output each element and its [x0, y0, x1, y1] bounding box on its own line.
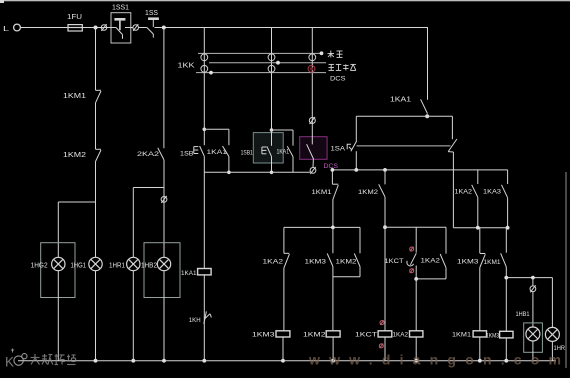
box around lamp 1HB1	[524, 323, 543, 352]
svg-text:1KM3: 1KM3	[457, 259, 479, 266]
contact 2KA2	[158, 148, 164, 160]
wire lamp 1HG1 to bottom bus	[95, 271, 97, 361]
coil 1KM3 (second)	[500, 331, 513, 360]
wire lamp 1HR to bottom bus	[551, 342, 553, 361]
svg-text:K: K	[5, 355, 14, 370]
switch 1SA left pole	[351, 116, 357, 170]
wire 1SA feed rail	[356, 115, 452, 117]
svg-text:1KM2: 1KM2	[303, 332, 326, 339]
svg-text:1HB2: 1HB2	[141, 262, 157, 269]
svg-text:1KA2: 1KA2	[263, 259, 284, 266]
svg-text:1KA1: 1KA1	[207, 149, 228, 156]
coil 1KA2	[410, 331, 423, 361]
grip marker red above 1KCT coil	[380, 320, 384, 325]
svg-text:1HR1: 1HR1	[109, 262, 125, 269]
switch 1SA DCS pole wire and blade	[307, 118, 314, 168]
switch 1SS1 contact	[111, 19, 131, 39]
contact 1KA2 (parallel with 1KCT)	[440, 227, 446, 279]
grip marker red below 1KCT contact	[410, 268, 414, 273]
switch 1KK pole 3 wire	[311, 28, 313, 118]
wire lamp 1HB2 to bottom bus	[163, 271, 165, 361]
svg-text:1SA: 1SA	[331, 146, 346, 153]
contact 1KA1 (parallel with 1SB1)	[287, 130, 293, 172]
terminal circle-slash before 1SS	[133, 24, 139, 31]
contact 1KM1 (middle row)	[332, 170, 338, 228]
svg-text:1SS1: 1SS1	[112, 5, 129, 12]
wire branch to lamp 1HG2	[58, 202, 95, 257]
label yuanzhu-shoudong (1KK position 2, CJK strokes)	[329, 64, 356, 70]
wire lamp rail y277	[504, 276, 552, 280]
svg-text:1KM3: 1KM3	[486, 332, 499, 339]
wire left column from fuse junction down	[95, 28, 97, 91]
switch 1SA right pole	[448, 116, 457, 227]
lamp 1HR1	[127, 257, 140, 270]
junction fuse/left-column	[94, 26, 98, 30]
wire 1SS1 to terminal	[131, 27, 133, 29]
switch 1SA linkage bar	[357, 145, 451, 147]
wire right frame edge	[565, 172, 567, 368]
switch 1KK position line 1	[198, 51, 323, 55]
wire 1KM2 contact down to 1KCT coil	[383, 225, 387, 330]
box around pushbutton 1SB1	[253, 133, 283, 163]
contact 1KM1 (to second coil)	[501, 228, 507, 332]
switch 1KK contact circles row 2	[201, 65, 275, 72]
contact 1KM1 (left column)	[96, 90, 102, 103]
switch 1SS contact	[139, 19, 159, 38]
box around lamp 1HG2	[41, 243, 75, 298]
grip marker red above 1KCT contact	[410, 247, 414, 252]
junction dots on bottom bus	[94, 359, 509, 363]
contact 1KA2 (top right)	[472, 170, 478, 228]
svg-text:1HG2: 1HG2	[31, 262, 48, 269]
svg-text:DCS: DCS	[330, 75, 346, 82]
wire lamp 1HB1 branch	[532, 278, 534, 286]
svg-text:1KM1: 1KM1	[452, 332, 471, 339]
contact 1KA1 (top right)	[421, 99, 428, 113]
switch 1SS1 box	[111, 13, 131, 43]
node L terminal	[14, 24, 21, 31]
wire DCS rail (collects 1SB,1SB1 branches)	[204, 171, 310, 173]
junction 1KM2 drop on bus	[383, 168, 387, 172]
terminal circle-slash above 1SA DCS pole	[309, 117, 315, 124]
top border line	[0, 0, 570, 1]
svg-text:1KM2: 1KM2	[63, 152, 86, 159]
svg-text:1KK: 1KK	[178, 63, 195, 70]
wire coil 1KA1 to bottom bus	[203, 275, 205, 361]
junction 1KA1 to 1SA feed rail	[425, 114, 429, 118]
svg-text:1KM2: 1KM2	[358, 189, 378, 196]
svg-text:1KA2: 1KA2	[455, 188, 473, 195]
wire 2KA2 down to lamp 1HB2	[163, 160, 165, 257]
coil 1KCT	[378, 331, 392, 361]
svg-text:1FU: 1FU	[67, 14, 82, 21]
switch 1KK contact circle row 2 right (red)	[308, 65, 315, 72]
coil 1KA1	[198, 269, 212, 275]
svg-text:1KA1: 1KA1	[181, 270, 197, 277]
svg-text:1KCT: 1KCT	[385, 258, 404, 265]
switch 1KK contact circles row 1	[201, 54, 316, 61]
pushbutton 1SB	[194, 129, 205, 172]
watermark logo (bottom left)	[5, 349, 27, 370]
contact 1KM3 (to 1KM1 coil)	[480, 228, 486, 331]
wire 1KM2 down to lamp 1HG1	[95, 162, 97, 258]
wire top bus L to fuse	[20, 27, 68, 29]
lamp 1HB2	[157, 257, 170, 270]
wire 2KA2 column from top bus	[163, 28, 165, 149]
coil 1KM2	[326, 331, 340, 361]
svg-text:1KA2: 1KA2	[421, 258, 441, 265]
wire rail y227 right section	[453, 226, 509, 230]
node corner bus left end	[331, 168, 335, 172]
terminal circle-slash on 1HB1 wire	[530, 285, 536, 292]
pushbutton 1SB1	[262, 130, 273, 174]
svg-text:1KCT: 1KCT	[355, 332, 377, 339]
thermal contact 1KH	[204, 311, 212, 324]
box (purple) around 1SA DCS pole	[300, 137, 327, 160]
svg-text:2KA2: 2KA2	[137, 151, 159, 158]
wire lamp 1HG2 to bottom bus	[57, 271, 59, 361]
coil 1KM3	[276, 331, 290, 361]
switch 1KK pole 1 wire	[203, 28, 205, 130]
svg-text:1KA3: 1KA3	[483, 188, 501, 195]
wire terminal to lamp 1HB1	[532, 292, 534, 327]
svg-text:1KM1: 1KM1	[484, 259, 501, 266]
svg-text:DCS: DCS	[324, 163, 339, 170]
svg-text:1KM2: 1KM2	[336, 259, 357, 266]
wire lamp 1HR branch	[551, 278, 553, 328]
contact 1KA3 (top right)	[502, 170, 508, 228]
svg-text:1KA1: 1KA1	[277, 149, 290, 156]
contact 1KM2 (parallel pair)	[354, 227, 360, 276]
svg-text:1SB1: 1SB1	[241, 149, 254, 156]
wire right bus y171	[332, 169, 507, 171]
switch 1KK position line 3	[196, 71, 326, 75]
glyph small bracket after 1SA	[347, 144, 351, 149]
svg-text:1KM3: 1KM3	[252, 332, 275, 339]
wire rejoin rail to 1KM2 coil	[333, 277, 360, 331]
fuse 1FU	[68, 25, 82, 31]
pushbutton 1SB1 parallel branch split	[270, 128, 293, 132]
svg-text:1KA1: 1KA1	[390, 97, 411, 104]
grip marker red below 1KCT coil	[379, 344, 383, 349]
lamp 1HG2	[52, 257, 65, 270]
label benqi (1KK position 1, CJK strokes)	[328, 51, 343, 58]
wire top bus right end down	[427, 28, 429, 100]
svg-text:1SB: 1SB	[180, 150, 194, 157]
watermark dashukuajing (CJK strokes, bottom left)	[31, 354, 76, 365]
terminal circle-slash at DCS rail end	[310, 167, 316, 174]
contact 1KM2 (left column)	[96, 149, 102, 161]
contact 1KM2 (middle row)	[379, 170, 385, 227]
contact 1KM3 (parallel pair)	[327, 227, 333, 276]
switch 1KK position line 2	[209, 61, 326, 65]
svg-text:1KM3: 1KM3	[305, 259, 327, 266]
wire between 1KM1 and 1KM2	[95, 103, 97, 150]
svg-text:1KA2: 1KA2	[393, 332, 409, 339]
coil 1KM1	[473, 331, 486, 361]
wire rejoin rail to 1KA2 coil	[414, 277, 446, 331]
wire rail y227 middle section	[385, 226, 446, 228]
wire top bus 1SS to right end	[155, 27, 429, 29]
svg-text:1HB1: 1HB1	[516, 311, 530, 318]
box around lamp 1HB2	[144, 243, 180, 298]
lamp 1HR	[545, 327, 559, 341]
switch 1KK pole 2 wire	[271, 28, 273, 131]
wire bottom bus	[18, 360, 556, 362]
wire branch to lamp 1HR1	[133, 188, 164, 258]
wire down to relay coil 1KA1	[203, 172, 205, 268]
wire lamp 1HR1 to bottom bus	[132, 271, 134, 361]
timer contact 1KCT (delay)	[407, 227, 416, 279]
lamp 1HG1	[89, 257, 102, 270]
pushbutton 1SB parallel branch split	[203, 128, 229, 132]
junction top bus / 2KA2 column	[162, 26, 166, 30]
contact 1KA2 (to 1KM3 coil)	[284, 227, 290, 330]
svg-text:L: L	[3, 26, 9, 33]
svg-text:1KH: 1KH	[189, 317, 201, 324]
svg-text:1KM1: 1KM1	[63, 93, 86, 100]
wire rail y227 left section	[284, 226, 360, 230]
contact 1KA1 (parallel with 1SB)	[223, 129, 231, 174]
terminal circle-slash before 1SS1	[101, 24, 107, 31]
junction 1SA left pole to bus	[354, 168, 358, 172]
svg-text:1SS: 1SS	[145, 10, 158, 17]
svg-text:1KM1: 1KM1	[312, 189, 332, 196]
wire lamp 1HB1 to bottom bus	[532, 341, 534, 361]
svg-text:1HG1: 1HG1	[71, 262, 87, 269]
terminal circle-slash on 1HB2 wire	[161, 196, 167, 203]
wire fuse to 1SS1	[82, 27, 111, 29]
lamp 1HB1	[526, 327, 540, 341]
